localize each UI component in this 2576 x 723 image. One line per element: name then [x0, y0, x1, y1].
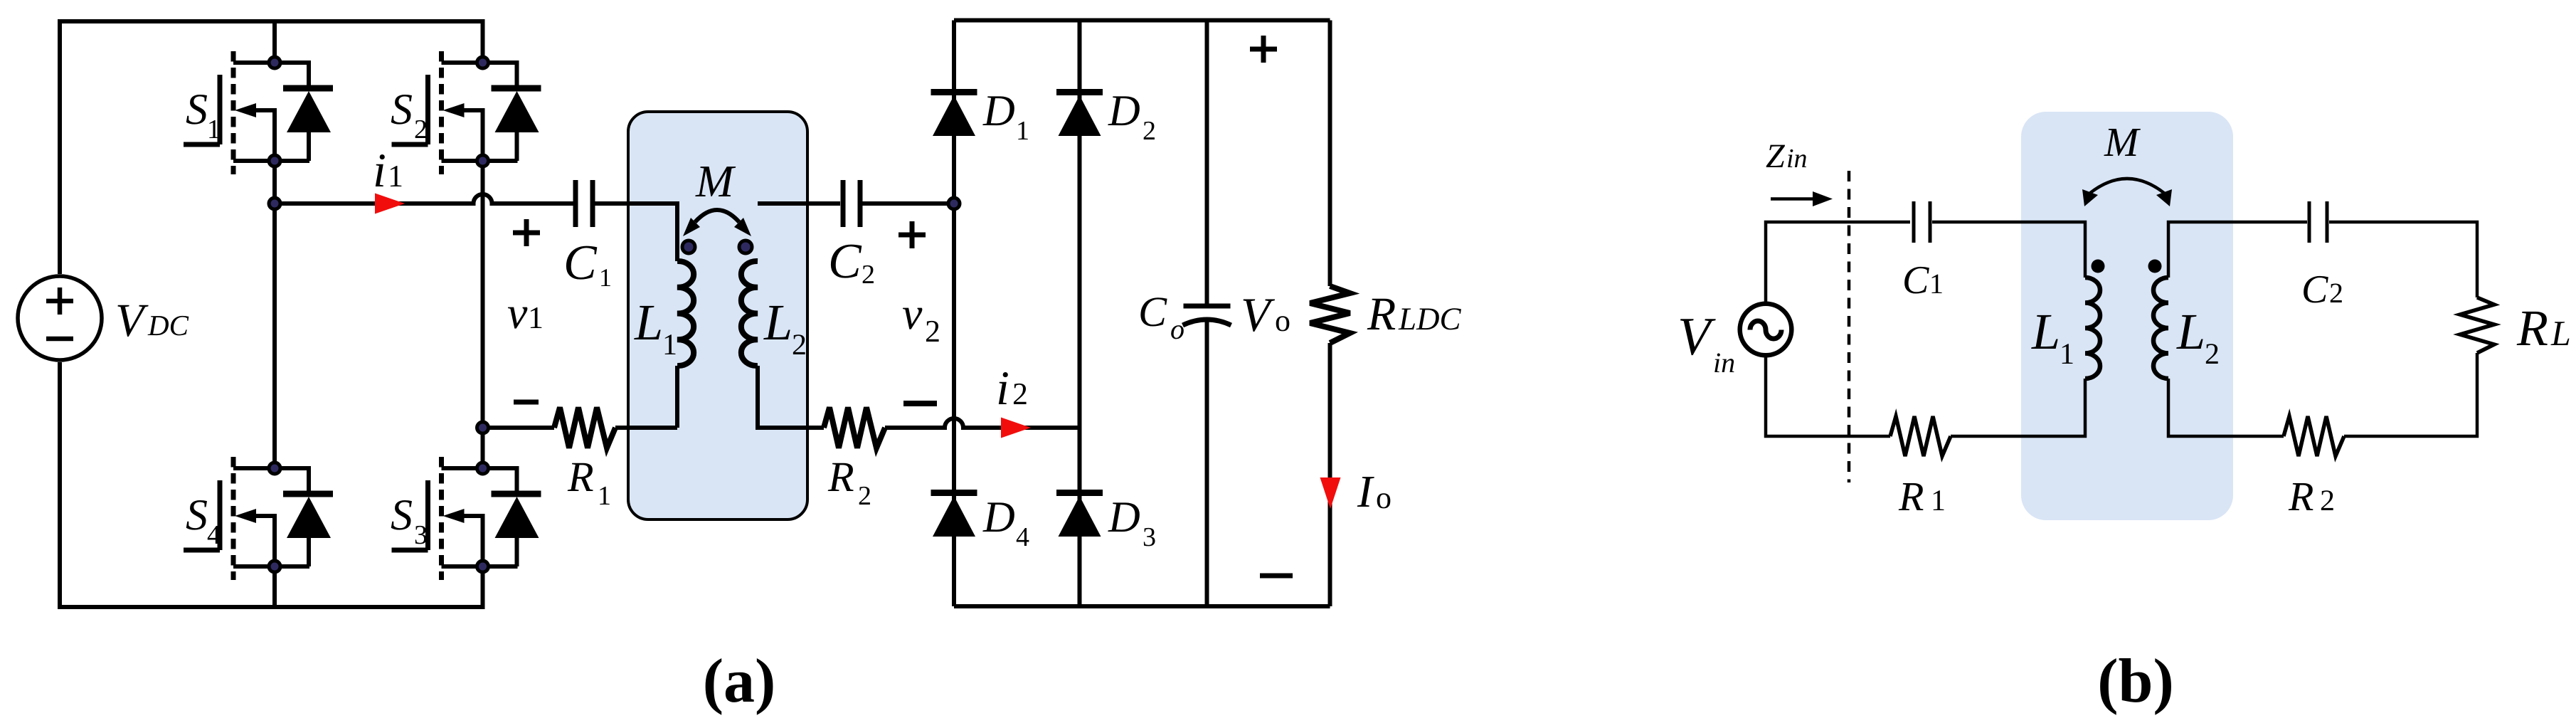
node S1 source [269, 155, 280, 167]
svg-text:i: i [373, 143, 386, 197]
svg-text:D: D [1108, 493, 1140, 542]
arrow Zin [1771, 197, 1814, 201]
wire R2 to RL bottom [2344, 353, 2477, 436]
transistor S2 [392, 51, 541, 174]
wire bottom rail VDC- [60, 362, 483, 607]
svg-text:2: 2 [2320, 485, 2335, 517]
transistor S4 [184, 457, 333, 580]
svg-text:R: R [1898, 473, 1924, 519]
resistor R2 [824, 408, 885, 448]
wire L1 bottom [675, 366, 679, 428]
transistor S3 [392, 457, 541, 580]
arrow Io [1320, 477, 1341, 509]
svg-text:v: v [902, 288, 923, 339]
label - v1 [514, 400, 539, 405]
wire b left bottom [1766, 357, 1890, 436]
svg-text:R: R [567, 453, 594, 500]
mutual arrow M [683, 210, 751, 236]
diode D2 [1056, 93, 1103, 137]
svg-text:2: 2 [1012, 376, 1028, 411]
resistor RLDC [1310, 286, 1350, 343]
wire C2 to RL [2329, 222, 2477, 297]
resistor R2 b [2284, 416, 2344, 456]
wire output capacitor branch [1205, 21, 1209, 607]
node S4 source [269, 561, 280, 572]
svg-text:I: I [1357, 466, 1374, 517]
svg-text:1: 1 [1931, 485, 1946, 517]
label - output [1260, 574, 1293, 579]
svg-text:V: V [1677, 307, 1716, 366]
svg-text:V: V [115, 295, 149, 347]
diode D4 [931, 493, 977, 537]
polarity dot L2 b [2148, 260, 2162, 273]
node S3 drain [477, 463, 489, 474]
svg-text:L: L [2031, 303, 2060, 360]
svg-text:1: 1 [528, 300, 544, 335]
svg-text:R: R [1367, 288, 1396, 340]
wire v2+ link [758, 201, 840, 206]
wire S3 source to rail [481, 566, 485, 607]
svg-text:2: 2 [2329, 277, 2343, 309]
svg-text:S: S [186, 85, 208, 134]
inductor L1 [677, 261, 694, 366]
wire R2 to rectifier with hop over D1 leg [885, 418, 1080, 428]
svg-text:S: S [391, 491, 413, 539]
polarity dot L2 [739, 241, 752, 253]
transistor S1 [184, 51, 333, 174]
svg-text:3: 3 [414, 520, 428, 550]
svg-text:2: 2 [1143, 116, 1156, 146]
svg-text:(a): (a) [703, 647, 776, 716]
wire left leg mid [272, 161, 277, 468]
wire R1 to L1 [615, 426, 677, 430]
svg-text:v: v [507, 287, 528, 338]
svg-text:M: M [2104, 119, 2141, 165]
label - v2 [903, 401, 937, 406]
node S3 source [477, 561, 489, 572]
svg-text:D: D [982, 493, 1015, 542]
capacitor C2 b [2309, 201, 2327, 243]
svg-text:1: 1 [1016, 116, 1029, 146]
svg-text:4: 4 [207, 520, 221, 550]
wire S1 drain leg [272, 21, 277, 63]
svg-text:R: R [2288, 473, 2313, 519]
svg-text:C: C [2301, 268, 2328, 312]
capacitor Co [1183, 306, 1231, 325]
resistor RL [2460, 297, 2494, 353]
svg-text:1: 1 [662, 329, 677, 361]
svg-text:L: L [634, 294, 663, 351]
svg-text:R: R [2516, 300, 2548, 357]
svg-text:1: 1 [1929, 268, 1944, 300]
svg-text:(b): (b) [2097, 647, 2174, 716]
svg-text:in: in [1786, 144, 1808, 174]
svg-text:D: D [982, 87, 1015, 135]
svg-text:L: L [2176, 303, 2205, 360]
label + v1 [513, 219, 540, 246]
svg-text:DC: DC [147, 309, 189, 342]
svg-text:L: L [2550, 313, 2571, 353]
label + v2 [899, 221, 926, 248]
node S2 drain [477, 57, 489, 68]
svg-text:1: 1 [207, 115, 221, 144]
coupling region box [628, 112, 807, 519]
resistor R1 b [1890, 416, 1951, 456]
svg-text:2: 2 [862, 260, 875, 290]
label + output [1250, 36, 1277, 63]
wire S4 source to rail [272, 566, 277, 607]
wire D1-D4 branch [952, 21, 956, 607]
svg-text:1: 1 [2060, 338, 2074, 371]
svg-text:3: 3 [1143, 522, 1156, 552]
svg-text:o: o [1170, 313, 1184, 345]
polarity dot L1 [682, 241, 695, 253]
wire right leg mid [481, 161, 485, 468]
source VDC [18, 276, 102, 360]
wire rectifier bottom rail [954, 604, 1330, 608]
wire L2 top to C2 b [2168, 222, 2307, 278]
svg-text:M: M [695, 156, 736, 206]
inductor L2 b [2153, 278, 2168, 379]
wire D2-D3 branch [1078, 21, 1082, 607]
polarity dot L1 b [2092, 260, 2105, 273]
svg-text:1: 1 [388, 159, 403, 194]
svg-text:4: 4 [1016, 522, 1029, 552]
svg-text:L: L [763, 294, 793, 351]
svg-text:V: V [1241, 287, 1276, 342]
svg-text:1: 1 [598, 481, 611, 511]
wire load branch [1328, 21, 1332, 607]
wire b left top [1766, 222, 1910, 302]
capacitor C1 b [1914, 201, 1930, 243]
wire rectifier top rail [954, 19, 1330, 23]
svg-text:2: 2 [925, 314, 940, 349]
capacitor C2 [843, 180, 860, 227]
wire R1 to L1 b [1951, 379, 2085, 436]
node bridge left output [269, 198, 280, 209]
node S4 drain [269, 463, 280, 474]
arrow i1 [375, 194, 405, 214]
wire v1+ link with hop over right leg [275, 194, 573, 204]
inductor L1 b [2085, 278, 2100, 379]
svg-text:o: o [1275, 303, 1290, 338]
resistor R1 [554, 408, 615, 448]
mutual arrow M b [2082, 179, 2172, 206]
svg-text:C: C [1138, 288, 1167, 335]
wire C2 to rectifier node [862, 201, 954, 206]
wire C1 to L1 top [595, 204, 677, 261]
svg-text:Z: Z [1766, 137, 1786, 175]
source Vin [1740, 304, 1792, 356]
wire L2 bottom [758, 366, 824, 428]
svg-text:S: S [186, 491, 208, 539]
svg-text:D: D [1108, 87, 1140, 135]
svg-text:C: C [828, 234, 862, 289]
svg-text:LDC: LDC [1398, 301, 1462, 337]
diode D3 [1056, 493, 1103, 537]
wire node to R1 [483, 426, 555, 430]
diode D1 [931, 93, 977, 137]
node S1 drain [269, 57, 280, 68]
node rectifier input v2 [948, 198, 960, 209]
arrow i2 [1001, 418, 1031, 438]
coupling region box b [2021, 112, 2233, 520]
svg-text:2: 2 [858, 481, 871, 511]
svg-text:2: 2 [792, 329, 807, 361]
inductor L2 [741, 261, 758, 366]
svg-text:S: S [391, 85, 413, 134]
node bridge right output R1 [477, 422, 489, 433]
svg-text:in: in [1713, 347, 1735, 379]
svg-text:C: C [1902, 258, 1929, 302]
svg-text:o: o [1376, 480, 1392, 515]
svg-text:C: C [563, 236, 598, 290]
svg-text:R: R [827, 453, 854, 500]
node S2 source [477, 155, 489, 167]
svg-text:1: 1 [599, 263, 612, 292]
svg-text:i: i [996, 361, 1009, 415]
boundary dashed line [1848, 171, 1851, 482]
wire C1 to L1 b [1932, 222, 2085, 278]
svg-text:2: 2 [2205, 338, 2220, 371]
wire top rail VDC+ [60, 21, 483, 274]
svg-text:2: 2 [414, 115, 428, 144]
capacitor C1 [576, 180, 593, 227]
wire L2 bottom to R2 b [2168, 379, 2284, 436]
